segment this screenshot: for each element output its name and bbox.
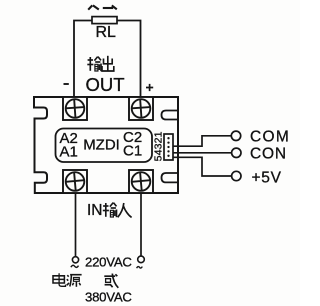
label + (output plus) bbox=[146, 84, 153, 91]
AC symbol ~ right bbox=[137, 267, 143, 269]
AC source terminal right bbox=[138, 256, 145, 263]
connector pin numbers 5 4 3 2 1 bbox=[152, 131, 164, 161]
screw terminal bottom-left (input) bbox=[63, 170, 87, 193]
svg-text:380VAC: 380VAC bbox=[85, 290, 132, 305]
svg-text:+5V: +5V bbox=[252, 170, 282, 187]
resistor RL (load) bbox=[92, 17, 117, 24]
电 bbox=[53, 276, 64, 283]
输 bbox=[103, 205, 108, 207]
svg-text:1: 1 bbox=[152, 131, 164, 137]
screw terminal top-left (output -) bbox=[63, 97, 87, 120]
出 bbox=[107, 56, 109, 71]
svg-text:COM: COM bbox=[250, 129, 290, 146]
mounting slot (top-right) bbox=[162, 111, 179, 120]
SSR label plate MZDI bbox=[56, 129, 153, 163]
wire: output loop left (from RL to - terminal) bbox=[74, 21, 92, 98]
AC symbol ~ left bbox=[71, 265, 79, 267]
输 bbox=[88, 59, 93, 61]
svg-text:A1: A1 bbox=[60, 144, 78, 161]
mounting slot (bottom-right) bbox=[162, 173, 179, 182]
node CON (terminal circle) bbox=[232, 148, 241, 157]
wire: COM bbox=[173, 136, 231, 146]
label 输出 (output) bbox=[87, 56, 114, 71]
svg-text:CON: CON bbox=[250, 146, 287, 163]
screw terminal top-right (output +) bbox=[129, 97, 153, 120]
label 或 (or) bbox=[104, 274, 118, 288]
svg-text:IN: IN bbox=[87, 202, 103, 219]
connector J1 (5-pin header) bbox=[164, 134, 173, 160]
AC source terminal left bbox=[72, 257, 78, 263]
入 bbox=[118, 203, 124, 217]
node COM (terminal circle) bbox=[231, 131, 240, 140]
svg-text:OUT: OUT bbox=[86, 74, 125, 95]
svg-text:RL: RL bbox=[96, 24, 117, 41]
node +5V (terminal circle) bbox=[232, 171, 241, 180]
svg-text:MZDI: MZDI bbox=[83, 137, 120, 154]
screw terminal bottom-right (input) bbox=[129, 170, 153, 193]
wire: CON bbox=[173, 152, 232, 154]
label 电源 (power source) bbox=[53, 273, 82, 287]
label - (output minus) bbox=[64, 83, 69, 85]
wire: output loop right (from RL to + terminal) bbox=[117, 21, 141, 98]
svg-text:220VAC: 220VAC bbox=[85, 255, 132, 270]
load label (cut-off 负载) bbox=[88, 5, 117, 9]
wire: +5V bbox=[173, 157, 232, 176]
wire: input right (to AC source) bbox=[140, 193, 142, 256]
svg-text:C1: C1 bbox=[123, 143, 142, 160]
SSR module body outline with left mounting notches bbox=[34, 97, 178, 193]
wire: input left (to AC source) bbox=[75, 193, 77, 257]
源 bbox=[67, 275, 68, 277]
connector pins (dots) bbox=[167, 137, 169, 157]
